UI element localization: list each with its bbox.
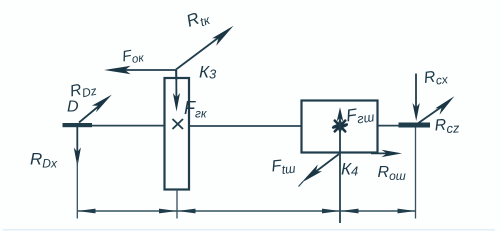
force arrow Ftsh (diagonal down-left from K4) bbox=[308, 154, 339, 178]
shaft axis wire: segment D to gear K3 bbox=[88, 125, 165, 127]
extension line below bearing C bbox=[415, 128, 417, 219]
shaft axis wire: segment box K4 to bearing C bbox=[377, 125, 400, 127]
node K3: junction at top of gear bbox=[175, 70, 177, 80]
reaction arrow RDz (diagonal up-right at D) bbox=[79, 105, 100, 123]
gear K3 (tall rectangle) bbox=[165, 78, 190, 190]
node: star mark at box K4 center bbox=[333, 121, 347, 132]
dimension line segment D to K3 bbox=[78, 210, 178, 212]
force arrow Fok (horizontal, pointing left) bbox=[118, 69, 176, 71]
extension line below D bbox=[76, 160, 78, 219]
reaction arrow Rcx (down to bearing C) bbox=[415, 74, 417, 109]
extension line below gear K3 bbox=[176, 190, 178, 219]
node: cross mark at gear K3 center bbox=[173, 119, 184, 129]
force arrow Fgsh (up, inside box K4) bbox=[339, 112, 341, 153]
reaction arrow Rtk (diagonal up-right) bbox=[176, 37, 220, 70]
dimension line segment K3 to K4 bbox=[178, 210, 341, 212]
svg-text:D: D bbox=[67, 99, 79, 116]
bearing support C (thick bar) bbox=[399, 123, 431, 128]
dimension line segment K4 to C bbox=[341, 210, 416, 212]
extension line below K4 bbox=[339, 153, 341, 224]
bearing support D (thick bar) bbox=[63, 123, 93, 127]
shaft axis wire: segment gear K3 to box K4 bbox=[189, 125, 302, 127]
force arrow Fgk (down, inside gear) bbox=[175, 70, 177, 100]
reaction arrow Rcz (diagonal up-right at C) bbox=[417, 107, 442, 125]
pinion box K4 (rectangle) bbox=[302, 101, 378, 153]
reaction arrow RDx (down from D) bbox=[76, 127, 78, 152]
reaction arrow Rosh (horizontal right at box bottom) bbox=[371, 152, 388, 154]
